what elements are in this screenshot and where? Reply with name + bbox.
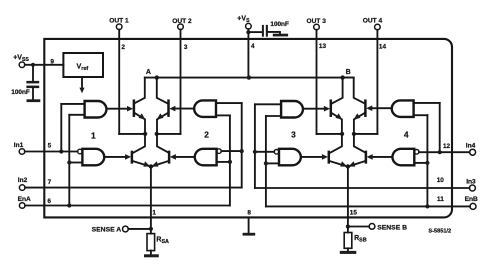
- wire QA4 base from gate2 lower: [175, 156, 195, 158]
- transistor QB1 (top-left, bridge B): [330, 101, 333, 116]
- wire QB4 emitter: [349, 161, 366, 166]
- svg-text:SENSE B: SENSE B: [377, 224, 407, 231]
- wire pin15 sense B stem: [347, 167, 349, 227]
- wire QA4 collector: [157, 134, 169, 153]
- junction OUT1 node: [143, 132, 147, 136]
- wire QA1 base from gate1: [107, 108, 129, 110]
- wire gate1 lower input EnA: [69, 162, 82, 164]
- junction sense B tap: [346, 224, 350, 228]
- junction EnA wire: [67, 203, 71, 207]
- svg-text:100nF: 100nF: [11, 89, 30, 96]
- wire QB3 emitter: [330, 161, 347, 166]
- wire QA3 collector: [133, 134, 145, 153]
- wire In4 (pin 12): [419, 151, 470, 153]
- junction OUT2 node: [155, 132, 159, 136]
- junction OUT3 node: [340, 132, 344, 136]
- terminal EnB: [465, 196, 478, 210]
- wire sense A: [128, 228, 151, 230]
- inverter bubble U4 lower input: [414, 150, 419, 155]
- and-gate U2 lower: [195, 149, 217, 166]
- resistor RSA: [147, 229, 169, 255]
- wire In3 bus: [254, 104, 256, 188]
- transistor QB3 (bottom-left, bridge B): [328, 152, 331, 163]
- wire gate2 bubble to In2 bus: [221, 150, 241, 152]
- wire QB1 base from gate3: [303, 108, 325, 110]
- terminal In2: [18, 177, 28, 190]
- svg-text:In2: In2: [18, 177, 28, 184]
- wire pin2 OUT1 stem: [118, 30, 120, 134]
- svg-text:3: 3: [184, 44, 188, 51]
- svg-text:OUT 3: OUT 3: [306, 18, 326, 25]
- terminal EnA: [18, 196, 31, 208]
- wire In2 bus: [241, 103, 243, 188]
- svg-text:100nF: 100nF: [270, 21, 289, 28]
- svg-text:1: 1: [91, 130, 96, 140]
- wire QA3 emitter: [133, 161, 150, 166]
- transistor QA1 (top-left, bridge A): [133, 101, 136, 116]
- wire gate3 upper input EnB: [266, 115, 281, 117]
- svg-text:SENSE A: SENSE A: [92, 227, 122, 234]
- wire gate1 upper input In1: [61, 103, 84, 105]
- svg-text:1: 1: [152, 210, 156, 217]
- wire QB1 emitter: [331, 113, 342, 134]
- ground (top cap): [273, 34, 288, 37]
- wire pin9 Vss to Vref: [25, 64, 64, 66]
- terminal OUT3: [306, 18, 326, 30]
- IC outer box: [44, 39, 452, 218]
- junction bridge B emitter node: [346, 164, 350, 168]
- wire gate4 upper input EnB: [414, 114, 428, 116]
- wire pin1 sense A stem: [150, 167, 152, 229]
- and-gate U2 upper: [194, 100, 216, 117]
- transistor QA2 (top-right, bridge A): [167, 101, 170, 116]
- terminal +Vss: [13, 54, 29, 67]
- node A: [146, 69, 159, 80]
- svg-text:S-5851/2: S-5851/2: [428, 229, 451, 235]
- junction bridge A emitter node: [149, 164, 153, 168]
- node B: [340, 69, 350, 80]
- ground (left cap): [27, 99, 41, 102]
- wire EnA bus right: [229, 115, 231, 205]
- and-gate U3 lower: [279, 149, 301, 166]
- and-gate U1 upper: [85, 101, 107, 118]
- wire OUT3 to bridge: [317, 133, 343, 135]
- wire OUT1 to bridge: [119, 133, 145, 135]
- wire QA2 base from gate2: [174, 108, 194, 110]
- terminal +Vs: [237, 16, 251, 29]
- svg-text:EnB: EnB: [465, 196, 478, 203]
- junction rail pin4: [247, 75, 251, 79]
- junction In4 bus: [438, 150, 442, 154]
- svg-text:15: 15: [350, 210, 358, 217]
- wire OUT2 to bridge: [157, 133, 181, 135]
- wire EnB (pin 11): [266, 205, 470, 207]
- wire rail extension to QB2: [343, 78, 365, 104]
- wire gate3 bubble feed: [255, 151, 274, 153]
- svg-text:In3: In3: [466, 179, 476, 186]
- svg-text:9: 9: [50, 58, 54, 65]
- wire pin8 ground stem: [248, 217, 250, 232]
- wire pin3 OUT2 stem: [180, 30, 182, 134]
- junction EnA gate2 lower: [228, 160, 232, 164]
- inverter bubble U1 lower input: [78, 149, 83, 154]
- svg-text:OUT 1: OUT 1: [109, 18, 129, 25]
- and-gate U4 lower: [392, 149, 414, 166]
- ground pin8: [243, 233, 256, 236]
- svg-text:4: 4: [404, 129, 409, 139]
- transistor QA4 (bottom-right, bridge A): [168, 152, 171, 163]
- wire sense B: [348, 226, 369, 228]
- transistor QA3 (bottom-left, bridge A): [131, 152, 134, 163]
- wire QA3 base from gate1 lower: [104, 156, 126, 158]
- and-gate U1 lower: [82, 149, 104, 166]
- terminal SENSE B: [369, 224, 407, 232]
- wire QA2 emitter: [157, 113, 168, 134]
- wire gate4 lower input EnB: [414, 162, 427, 164]
- junction EnB wire: [425, 204, 429, 208]
- and-gate U3 upper: [281, 101, 303, 118]
- terminal OUT1: [109, 18, 129, 30]
- wire gate3 lower input EnB: [266, 162, 279, 164]
- Vref output arrow: [79, 77, 84, 93]
- resistor RSB: [344, 227, 367, 251]
- transistor QB2 (top-right, bridge B): [364, 101, 367, 116]
- wire cap to ground (left): [32, 88, 34, 99]
- terminal In1: [14, 142, 25, 154]
- svg-text:12: 12: [443, 143, 451, 150]
- wire QB4 base from gate4 lower: [372, 156, 393, 158]
- wire EnA bus left: [68, 115, 70, 206]
- wire Vss cap stem: [32, 65, 34, 81]
- wire gate1 upper input EnA: [69, 114, 84, 116]
- wire QB3 base from gate3 lower: [301, 156, 323, 158]
- terminal In4: [466, 143, 476, 156]
- svg-text:11: 11: [437, 196, 444, 203]
- wire pin4 Vs stem: [247, 29, 249, 78]
- svg-text:In4: In4: [466, 143, 476, 150]
- svg-text:5: 5: [48, 142, 52, 149]
- capacitor 100nF (left): [11, 81, 39, 96]
- terminal OUT2: [172, 18, 192, 30]
- wire In2 (pin 7): [25, 187, 242, 189]
- junction In3 bubble feed: [253, 150, 257, 154]
- ground RSB: [340, 251, 357, 254]
- wire In4 bus: [439, 103, 441, 152]
- terminal SENSE A: [92, 226, 129, 234]
- svg-text:10: 10: [437, 177, 445, 184]
- junction sense A tap: [149, 227, 153, 231]
- junction EnB gate3 lower: [264, 161, 268, 165]
- wire QA4 emitter: [152, 161, 169, 166]
- wire Vs to cap: [248, 31, 261, 33]
- wire QB3 collector: [330, 134, 342, 153]
- svg-text:A: A: [146, 69, 151, 76]
- wire OUT4 to bridge: [354, 133, 378, 135]
- wire QB2 emitter: [354, 113, 365, 134]
- svg-text:14: 14: [379, 44, 387, 51]
- junction In1 bus: [59, 149, 63, 153]
- junction Vs cap tap: [246, 30, 250, 34]
- wire pin13 OUT3 stem: [316, 30, 318, 134]
- svg-text:3: 3: [291, 130, 296, 140]
- inverter bubble U3 lower input: [274, 150, 279, 155]
- wire Vs rail: [145, 77, 354, 79]
- svg-text:OUT 2: OUT 2: [172, 18, 192, 25]
- wire QB1 collector: [332, 78, 342, 104]
- junction OUT4 node: [352, 132, 356, 136]
- junction EnA gate1 lower: [67, 160, 71, 164]
- svg-text:In1: In1: [14, 142, 24, 149]
- wire QA2 collector: [157, 78, 168, 104]
- wire EnA (pin 6): [25, 205, 230, 207]
- wire QA1 emitter: [135, 113, 146, 134]
- transistor QB4 (bottom-right, bridge B): [365, 152, 368, 163]
- wire EnB bus right: [426, 115, 428, 206]
- terminal In3: [466, 179, 476, 192]
- svg-text:OUT 4: OUT 4: [363, 17, 383, 24]
- svg-text:4: 4: [251, 43, 255, 50]
- wire In1 (pin 5): [25, 151, 78, 153]
- wire In3 (pin 10): [255, 187, 470, 189]
- svg-text:EnA: EnA: [18, 196, 31, 203]
- wire QB4 collector: [354, 134, 366, 153]
- wire QB2 base from gate4: [371, 107, 390, 109]
- terminal OUT4: [363, 17, 383, 29]
- capacitor 100nF (top): [262, 21, 289, 37]
- op block Vref: [63, 53, 103, 77]
- svg-text:2: 2: [121, 44, 125, 51]
- wire cap to ground: [268, 32, 280, 34]
- junction EnB gate4 lower: [425, 161, 429, 165]
- junction Vss cap tap: [31, 63, 35, 67]
- wire gate4 upper input In4: [414, 102, 440, 104]
- junction In2 bubble: [240, 149, 244, 153]
- wire QA1 collector: [135, 78, 145, 104]
- wire gate3 upper input In3: [255, 103, 281, 105]
- svg-text:6: 6: [47, 198, 51, 205]
- ground RSA: [144, 254, 159, 257]
- wire EnB bus left: [265, 116, 267, 206]
- wire gate2 upper input In2: [216, 102, 242, 104]
- wire gate2 upper input EnA: [216, 114, 230, 116]
- and-gate U4 upper: [392, 100, 414, 117]
- wire pin14 OUT4 stem: [376, 30, 378, 134]
- svg-text:7: 7: [48, 179, 52, 186]
- svg-text:B: B: [346, 69, 351, 76]
- wire gate2 lower input EnA: [217, 161, 230, 163]
- inverter bubble U2 lower input: [217, 149, 222, 154]
- svg-text:2: 2: [204, 129, 209, 139]
- wire In1 bus: [60, 104, 62, 152]
- svg-text:8: 8: [247, 209, 251, 216]
- svg-text:13: 13: [319, 43, 327, 50]
